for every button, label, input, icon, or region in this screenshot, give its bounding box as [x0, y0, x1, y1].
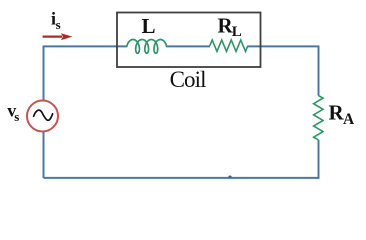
svg-text:L: L: [232, 24, 242, 40]
source VS circle: [27, 101, 58, 132]
source sine wave: [34, 110, 53, 120]
svg-text:s: s: [14, 109, 19, 124]
coil box: [117, 13, 261, 68]
wire right upper: [318, 46, 320, 96]
resistor RA: [314, 96, 323, 140]
resistor RL: [210, 40, 248, 51]
wire top middle segment: [166, 45, 210, 47]
current arrow is: [43, 35, 62, 37]
svg-text:L: L: [142, 14, 156, 38]
wire bottom: [44, 177, 319, 179]
inductor L: [127, 40, 167, 54]
wire right lower: [318, 140, 320, 179]
svg-text:A: A: [343, 111, 355, 128]
wire left upper: [43, 46, 45, 101]
wire top left segment: [44, 45, 128, 47]
wire top right segment: [248, 45, 319, 47]
wire left lower: [43, 131, 45, 178]
svg-text:Coil: Coil: [170, 67, 207, 92]
junction nub on bottom wire: [228, 176, 231, 178]
svg-text:s: s: [56, 17, 61, 32]
